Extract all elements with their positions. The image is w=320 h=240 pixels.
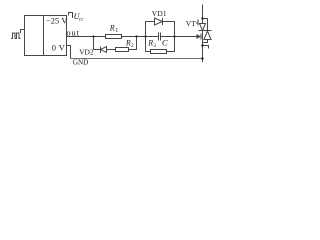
svg-text:C: C [162,38,168,48]
svg-text:2: 2 [131,43,134,49]
svg-text:−25 V: −25 V [46,16,68,25]
svg-text:VT: VT [186,19,197,28]
svg-text:cc: cc [79,16,84,22]
svg-text:R: R [109,24,115,33]
svg-text:VD1: VD1 [152,9,167,18]
svg-text:3: 3 [153,43,156,49]
svg-text:0 V: 0 V [52,44,65,53]
svg-text:1: 1 [115,28,118,34]
svg-text:VD2: VD2 [79,48,94,57]
svg-text:out: out [66,28,79,38]
svg-text:GND: GND [73,59,89,67]
